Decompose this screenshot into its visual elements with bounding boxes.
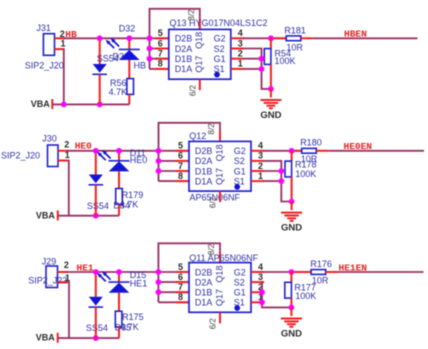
svg-text:VBA: VBA bbox=[31, 99, 51, 109]
svg-text:8: 8 bbox=[178, 292, 183, 302]
pin S1 dot bbox=[234, 184, 240, 190]
svg-text:VBA: VBA bbox=[36, 211, 56, 221]
svg-text:4: 4 bbox=[258, 141, 263, 151]
junction SS54/VBA bbox=[93, 335, 99, 341]
junction bus/ground bbox=[289, 305, 295, 311]
wire VBA rail bbox=[58, 215, 119, 217]
svg-text:3: 3 bbox=[258, 151, 263, 161]
pin S1 dot bbox=[234, 305, 240, 311]
svg-text:7: 7 bbox=[178, 161, 183, 171]
IC right pin 2 bbox=[231, 58, 244, 60]
LED D15 triangle bbox=[109, 283, 130, 293]
LED D32 cathode bar bbox=[119, 48, 140, 50]
IC right pin 2 bbox=[251, 170, 264, 172]
svg-text:6: 6 bbox=[158, 38, 163, 48]
svg-text:4: 4 bbox=[258, 262, 263, 272]
svg-text:1: 1 bbox=[238, 59, 243, 69]
wire HE1 to schottky D35 bbox=[95, 272, 97, 297]
connector J29 SIP2_J22 bbox=[46, 266, 58, 288]
IC left pin 5 bbox=[159, 150, 190, 152]
svg-text:4.7K: 4.7K bbox=[109, 87, 128, 97]
svg-text:5: 5 bbox=[158, 28, 163, 38]
IC right pin 4 bbox=[231, 37, 244, 39]
junction gate/R54 bbox=[268, 35, 274, 41]
svg-text:G2: G2 bbox=[214, 34, 226, 44]
IC right pin 1 bbox=[251, 180, 264, 182]
pin S1 dot bbox=[214, 72, 220, 78]
pin 6/2 (bottom) bbox=[199, 79, 201, 90]
LED D32 arrows bbox=[109, 43, 115, 49]
IC left pin 8 bbox=[158, 301, 189, 303]
svg-text:Q18: Q18 bbox=[194, 32, 204, 49]
wire VBA rail bbox=[58, 337, 119, 339]
wire schottky to VBA bbox=[99, 74, 101, 104]
svg-text:J31: J31 bbox=[36, 23, 51, 33]
svg-text:100K: 100K bbox=[275, 56, 296, 66]
svg-text:Q18: Q18 bbox=[214, 144, 224, 161]
connector J31 SIP2_J20 bbox=[43, 34, 54, 56]
wire HB to schottky D33 bbox=[99, 38, 101, 64]
svg-text:6/2: 6/2 bbox=[209, 318, 218, 330]
svg-text:D1A: D1A bbox=[195, 298, 213, 308]
junction bus/ground bbox=[289, 199, 295, 205]
svg-text:1: 1 bbox=[61, 39, 66, 49]
svg-text:GND: GND bbox=[260, 110, 281, 121]
svg-text:G2: G2 bbox=[234, 267, 246, 277]
LED D15 arrows bbox=[100, 276, 106, 282]
svg-text:S2: S2 bbox=[234, 156, 245, 166]
svg-text:SS54: SS54 bbox=[87, 201, 109, 211]
IC right pin 4 bbox=[251, 150, 264, 152]
svg-text:R178: R178 bbox=[295, 160, 317, 170]
IC left pin 5 bbox=[150, 37, 169, 39]
IC right pin 1 bbox=[251, 301, 264, 303]
wire left pin bus bbox=[159, 123, 221, 181]
junction pin2/bus bbox=[259, 56, 265, 62]
pin 8/2 (top) bbox=[199, 19, 201, 29]
IC left pin 8 bbox=[150, 68, 169, 70]
IC right pin 2 bbox=[251, 291, 264, 293]
svg-text:7: 7 bbox=[158, 49, 163, 59]
wire R176 to HE1EN bbox=[326, 271, 338, 273]
svg-text:4.7K: 4.7K bbox=[120, 200, 139, 210]
svg-text:G1: G1 bbox=[234, 166, 246, 176]
svg-text:1: 1 bbox=[258, 171, 263, 181]
LED D11 cathode bar bbox=[109, 160, 130, 162]
svg-text:4.7K: 4.7K bbox=[120, 322, 139, 332]
IC left pin 6 bbox=[158, 281, 189, 283]
svg-text:HE0: HE0 bbox=[75, 141, 92, 152]
wire pin4 to R181 bbox=[243, 37, 286, 39]
svg-text:R181: R181 bbox=[284, 25, 306, 35]
wire LED to resistor R56 bbox=[128, 60, 130, 79]
wire pin3/2/1 bus to ground bbox=[243, 49, 271, 89]
resistor R178 100K bbox=[291, 151, 293, 161]
svg-text:SIP2_J20: SIP2_J20 bbox=[25, 60, 64, 70]
resistor R54 100K bbox=[270, 38, 272, 48]
junction pin2/bus bbox=[259, 289, 265, 295]
wire HE0 to schottky D34 bbox=[95, 151, 97, 175]
svg-text:G1: G1 bbox=[214, 54, 226, 64]
svg-text:D2A: D2A bbox=[195, 156, 213, 166]
diode D34 SS54 bbox=[89, 175, 103, 184]
svg-text:HE1: HE1 bbox=[130, 279, 148, 289]
wire schottky to VBA bbox=[95, 185, 97, 216]
wire resistor to VBA bbox=[118, 327, 120, 338]
LED D32 triangle bbox=[119, 50, 140, 60]
wire pin3/2/1 bus to ground bbox=[262, 282, 291, 307]
resistor R56 4.7K bbox=[127, 79, 134, 95]
svg-text:2: 2 bbox=[64, 260, 69, 270]
IC right pin 4 bbox=[251, 271, 264, 273]
resistor R179 4.7K bbox=[116, 189, 123, 205]
junction HB/schottky bbox=[97, 35, 103, 41]
svg-text:100K: 100K bbox=[295, 291, 316, 301]
svg-text:5: 5 bbox=[178, 262, 183, 272]
svg-text:6: 6 bbox=[178, 151, 183, 161]
junction HE1/LED bbox=[118, 272, 120, 282]
IC left pin 7 bbox=[150, 58, 169, 60]
ground HE1 bbox=[290, 307, 292, 316]
svg-text:2: 2 bbox=[64, 140, 69, 150]
svg-text:3: 3 bbox=[258, 272, 263, 282]
junction pin1/bus bbox=[259, 66, 265, 72]
svg-text:Q17: Q17 bbox=[214, 289, 224, 306]
svg-text:D2B: D2B bbox=[175, 34, 193, 44]
LED D15 cathode bar bbox=[109, 281, 130, 283]
wire pin4 to R176 bbox=[263, 271, 311, 273]
wire net HE1 horizontal bbox=[67, 271, 159, 273]
wire left pin bus bbox=[150, 9, 200, 69]
diode D33 SS54 bbox=[93, 64, 107, 73]
svg-text:D1B: D1B bbox=[175, 54, 193, 64]
wire R177 to ground bbox=[290, 298, 292, 307]
diode D35 SS54 bbox=[89, 297, 103, 306]
svg-text:SS54: SS54 bbox=[86, 323, 108, 333]
svg-text:6: 6 bbox=[178, 272, 183, 282]
IC left pin 6 bbox=[150, 48, 169, 50]
svg-text:J29: J29 bbox=[42, 256, 57, 266]
svg-text:SIP2_J22: SIP2_J22 bbox=[28, 275, 67, 285]
svg-text:Q12: Q12 bbox=[189, 131, 206, 141]
resistor R181 10R bbox=[286, 36, 301, 41]
MOSFET IC Q12 bbox=[189, 141, 251, 191]
wire left pin bus bbox=[158, 243, 220, 302]
svg-text:4: 4 bbox=[238, 28, 243, 38]
junction HE0/schottky bbox=[93, 148, 99, 154]
junction pin1/bus bbox=[259, 299, 265, 305]
svg-text:Q13 HYG017N04LS1C2: Q13 HYG017N04LS1C2 bbox=[170, 18, 268, 28]
svg-text:7: 7 bbox=[178, 282, 183, 292]
svg-text:2: 2 bbox=[258, 161, 263, 171]
wire LED to resistor R175 bbox=[118, 293, 120, 312]
svg-text:VBA: VBA bbox=[36, 333, 56, 343]
svg-text:GND: GND bbox=[281, 329, 302, 340]
junction bus/ground bbox=[268, 86, 274, 92]
wire connector pin1 to VBA rail bbox=[67, 282, 70, 338]
IC right pin 3 bbox=[251, 160, 264, 162]
svg-text:SIP2_J20: SIP2_J20 bbox=[1, 150, 40, 160]
wire R180 to HE0EN bbox=[316, 150, 328, 152]
svg-text:HE1EN: HE1EN bbox=[339, 263, 368, 274]
wire pin4 to R180 bbox=[263, 150, 302, 152]
svg-text:D32: D32 bbox=[119, 23, 136, 33]
IC left pin 7 bbox=[159, 170, 190, 172]
junction pin1/bus bbox=[278, 178, 284, 184]
MOSFET IC Q11 AP65N06NF bbox=[189, 263, 251, 313]
connector J30 SIP2_J20 bbox=[48, 145, 59, 167]
junction SS54/VBA bbox=[97, 102, 103, 108]
junction HB/LED bbox=[128, 38, 130, 49]
svg-text:D2B: D2B bbox=[195, 267, 213, 277]
wire VBA rail bbox=[52, 103, 129, 105]
IC left pin 5 bbox=[158, 271, 189, 273]
junction pin1/VBA bbox=[61, 102, 67, 108]
svg-text:HE0: HE0 bbox=[130, 155, 148, 165]
svg-text:8: 8 bbox=[158, 59, 163, 69]
svg-text:HBEN: HBEN bbox=[344, 28, 367, 39]
wire R181 to HBEN bbox=[301, 37, 313, 39]
wire connector pin1 to VBA rail bbox=[67, 161, 69, 216]
wire connector pin1 to VBA rail bbox=[63, 49, 65, 104]
svg-text:D1B: D1B bbox=[195, 166, 213, 176]
ground HE0 bbox=[291, 202, 293, 211]
ground HB bbox=[270, 89, 272, 98]
wire LED to resistor R179 bbox=[118, 171, 120, 188]
resistor R177 100K bbox=[290, 272, 292, 282]
svg-text:R180: R180 bbox=[300, 138, 322, 148]
svg-text:8: 8 bbox=[178, 171, 183, 181]
wire schottky to VBA bbox=[95, 307, 97, 338]
junction gate/R177 bbox=[289, 269, 295, 275]
svg-text:100K: 100K bbox=[295, 169, 316, 179]
junction SS54/VBA bbox=[93, 213, 99, 219]
svg-text:J30: J30 bbox=[42, 133, 57, 143]
svg-text:R179: R179 bbox=[122, 190, 144, 200]
svg-text:Q17: Q17 bbox=[194, 56, 204, 73]
svg-text:G1: G1 bbox=[234, 288, 246, 298]
wire resistor to VBA bbox=[118, 204, 120, 215]
svg-text:D2B: D2B bbox=[195, 146, 213, 156]
svg-text:GND: GND bbox=[281, 223, 302, 234]
svg-text:Q11 AP65N06NF: Q11 AP65N06NF bbox=[189, 253, 258, 263]
wire R178 to ground bbox=[291, 177, 293, 202]
svg-text:G2: G2 bbox=[234, 146, 246, 156]
svg-text:D1B: D1B bbox=[195, 288, 213, 298]
junction gate/R178 bbox=[289, 148, 295, 154]
svg-text:HE0EN: HE0EN bbox=[344, 141, 373, 152]
resistor R175 4.7K bbox=[115, 311, 122, 327]
IC left pin 6 bbox=[159, 160, 190, 162]
LED D11 arrows bbox=[100, 155, 106, 161]
svg-text:2: 2 bbox=[238, 49, 243, 59]
junction HE1/schottky bbox=[93, 269, 99, 275]
MOSFET IC Q13 HYG017N04LS1C2 bbox=[169, 29, 231, 79]
wire resistor to VBA bbox=[128, 94, 130, 104]
IC left pin 8 bbox=[159, 180, 190, 182]
svg-text:8/2: 8/2 bbox=[207, 123, 216, 135]
svg-text:6/2: 6/2 bbox=[209, 196, 218, 208]
junction pin2/bus bbox=[278, 168, 284, 174]
svg-text:3: 3 bbox=[238, 38, 243, 48]
svg-text:D2A: D2A bbox=[175, 44, 193, 54]
pin 8/2 (top) bbox=[219, 131, 221, 141]
svg-text:D1A: D1A bbox=[195, 176, 213, 186]
IC right pin 3 bbox=[251, 281, 264, 283]
resistor R176 10R bbox=[311, 270, 326, 275]
IC left pin 7 bbox=[158, 291, 189, 293]
svg-text:HB: HB bbox=[134, 60, 147, 70]
svg-text:5: 5 bbox=[178, 141, 183, 151]
svg-text:Q17: Q17 bbox=[214, 168, 224, 185]
wire pin3/2/1 bus to ground bbox=[263, 161, 292, 202]
svg-text:S2: S2 bbox=[234, 277, 245, 287]
svg-text:S2: S2 bbox=[214, 44, 225, 54]
svg-text:Q18: Q18 bbox=[214, 266, 224, 283]
wire net HE0 horizontal bbox=[67, 150, 159, 152]
IC right pin 3 bbox=[231, 48, 244, 50]
LED D11 triangle bbox=[109, 161, 130, 171]
wire net HB horizontal bbox=[64, 37, 150, 39]
svg-text:6/2: 6/2 bbox=[188, 84, 197, 96]
pin 8/2 (top) bbox=[219, 253, 221, 263]
junction HE0/LED bbox=[118, 151, 120, 161]
svg-text:D2A: D2A bbox=[195, 277, 213, 287]
svg-text:R175: R175 bbox=[122, 312, 144, 322]
pin 6/2 (bottom) bbox=[219, 312, 221, 323]
svg-text:D1A: D1A bbox=[175, 64, 193, 74]
wire R54 to ground bbox=[270, 64, 272, 89]
pin 6/2 (bottom) bbox=[219, 191, 221, 202]
svg-text:R176: R176 bbox=[310, 259, 332, 269]
IC right pin 1 bbox=[231, 68, 244, 70]
resistor R180 10R bbox=[302, 148, 317, 153]
